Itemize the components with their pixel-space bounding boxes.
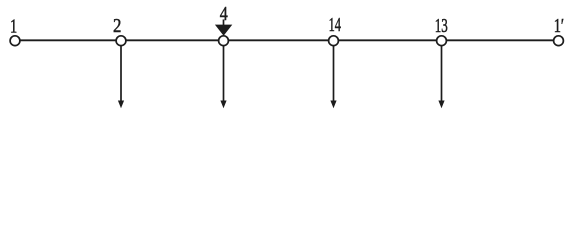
svg-text:2: 2 bbox=[113, 14, 121, 36]
label node 4 bbox=[220, 3, 228, 25]
svg-text:1′: 1′ bbox=[554, 14, 564, 37]
label node 1 bbox=[10, 14, 17, 37]
label node 1' bbox=[554, 14, 564, 37]
svg-text:14: 14 bbox=[329, 13, 342, 36]
node 13 bbox=[437, 36, 447, 46]
svg-text:1: 1 bbox=[10, 14, 17, 37]
injection arrowhead into node 4 bbox=[215, 25, 232, 36]
svg-text:13: 13 bbox=[435, 14, 448, 37]
wire load branch at node 14 bbox=[333, 45, 335, 102]
load arrow at node 13 bbox=[438, 101, 444, 109]
wire load branch at node 4 bbox=[223, 45, 225, 102]
svg-text:4: 4 bbox=[220, 3, 228, 25]
load arrow at node 2 bbox=[118, 101, 124, 109]
node 2 bbox=[116, 36, 126, 46]
wire main horizontal bus from node 1 to node 1' bbox=[20, 39, 555, 41]
wire load branch at node 2 bbox=[120, 45, 122, 102]
load arrow at node 4 bbox=[220, 101, 226, 109]
node 1 bbox=[10, 36, 20, 46]
wire injection stem above node 4 bbox=[223, 20, 225, 27]
load arrow at node 14 bbox=[330, 101, 336, 109]
node 4 bbox=[219, 36, 229, 46]
node 1' bbox=[554, 36, 564, 46]
label node 13 bbox=[435, 14, 448, 37]
node 14 bbox=[329, 36, 339, 46]
label node 2 bbox=[113, 14, 121, 36]
label node 14 bbox=[329, 13, 342, 36]
wire load branch at node 13 bbox=[441, 45, 443, 102]
